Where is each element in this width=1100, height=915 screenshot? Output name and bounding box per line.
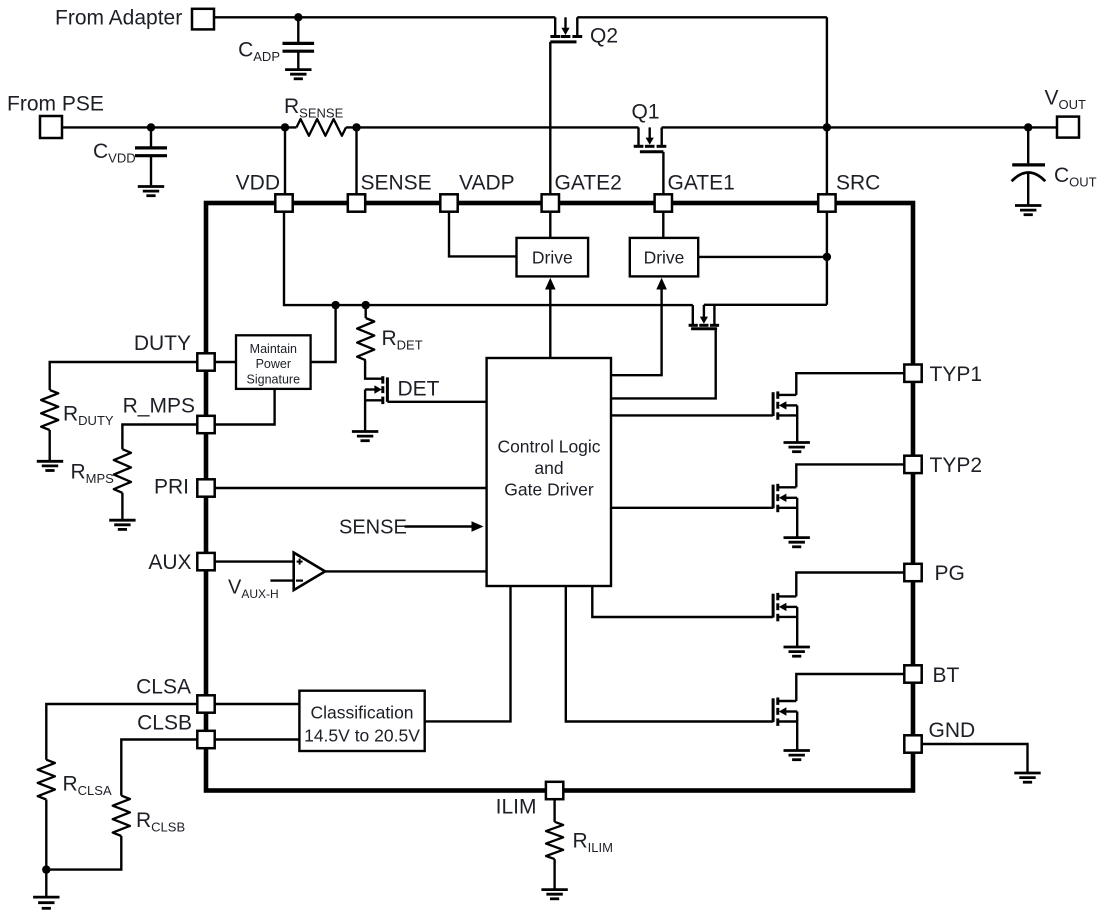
wire Q2 gate to GATE2 pin	[549, 42, 551, 195]
wire Drive2 output to SRC node	[698, 256, 827, 258]
svg-text:CLSB: CLSB	[137, 712, 192, 735]
wire GND pin to ground	[922, 744, 1028, 773]
ground GND pin	[1014, 772, 1040, 775]
svg-text:RSENSE: RSENSE	[284, 95, 344, 121]
pin GND	[904, 735, 921, 752]
wire GATE1 pin to Drive2	[662, 212, 664, 238]
block Control Logic and Gate Driver	[487, 358, 611, 586]
wire MPS box to VDD rail	[311, 305, 336, 362]
wire MPS box to R_MPS pin	[214, 389, 274, 425]
op-amp AUX comparator	[294, 553, 325, 591]
transistor DET	[381, 376, 384, 383]
transistor BT FET	[772, 698, 775, 722]
wire CLSB to classification box	[214, 738, 299, 740]
node RCLSA/RCLSB junction	[42, 865, 50, 873]
wire TYP2 source to ground	[796, 498, 798, 538]
wire RCLSB to junction	[46, 836, 121, 870]
wire Q1 source to VOUT	[662, 126, 1057, 128]
svg-text:RCLSB: RCLSB	[136, 809, 185, 835]
svg-text:R_MPS: R_MPS	[123, 395, 195, 418]
ground BT	[784, 749, 810, 752]
svg-text:BT: BT	[933, 664, 960, 687]
pin PG	[904, 564, 921, 581]
wire Q2 source to SRC drop	[577, 16, 827, 18]
block Classification	[299, 691, 424, 751]
svg-text:Drive: Drive	[532, 248, 573, 268]
pin VADP	[440, 194, 457, 211]
resistor RCLSA	[38, 760, 55, 800]
capacitor CADP	[297, 17, 299, 43]
svg-text:AUX: AUX	[148, 551, 191, 574]
pin CLSA	[197, 695, 214, 712]
wire CLSA to RCLSA	[46, 704, 197, 760]
wire SRC rail to pass FET	[704, 304, 827, 306]
wire TYP1 drain	[796, 373, 904, 395]
wire RDET top	[365, 305, 367, 318]
node Drive2/SRC junction	[823, 253, 831, 261]
wire PSE to RSENSE	[62, 126, 297, 128]
wire ILIM to RILIM	[553, 799, 555, 822]
pin SENSE	[348, 194, 365, 211]
wire DET gate to control logic	[387, 401, 486, 403]
pin ILIM	[546, 782, 563, 799]
svg-text:PG: PG	[935, 562, 965, 585]
wire TYP1 gate from control logic	[611, 414, 773, 416]
svg-text:GND: GND	[929, 719, 976, 742]
capacitor CVDD	[150, 127, 152, 147]
pin DUTY	[197, 353, 214, 370]
wire RDET to DET drain	[365, 360, 383, 379]
svg-text:CVDD: CVDD	[93, 140, 136, 166]
wire RILIM to ground	[553, 859, 555, 890]
wire CLSB to RCLSB	[121, 740, 197, 796]
resistor RMPS	[114, 449, 131, 493]
resistor RCLSB	[113, 796, 130, 836]
wire control logic to Drive2 (arrow)	[611, 289, 662, 376]
pin GATE1	[655, 194, 672, 211]
svg-text:SENSE: SENSE	[361, 172, 432, 195]
ground TYP2	[784, 536, 810, 539]
wire control logic to Drive1 (arrow)	[549, 289, 551, 359]
wire BT source to ground	[796, 712, 798, 751]
svg-text:DET: DET	[398, 378, 440, 401]
wire VAUX-H stub	[270, 579, 293, 581]
ground RILIM	[541, 888, 567, 891]
IC body (main controller outline)	[206, 203, 913, 791]
svg-text:CLSA: CLSA	[136, 676, 191, 699]
svg-text:GATE1: GATE1	[668, 172, 735, 195]
wire DUTY to RDUTY	[50, 362, 198, 390]
wire R_MPS to RMPS	[122, 425, 197, 450]
svg-text:VADP: VADP	[459, 172, 515, 195]
svg-text:ILIM: ILIM	[496, 796, 537, 819]
port VOUT	[1057, 117, 1079, 138]
pin BT	[904, 665, 921, 682]
svg-text:CADP: CADP	[238, 39, 280, 65]
node adapter/CADP junction	[294, 13, 302, 21]
node VDD tap	[281, 123, 289, 131]
svg-text:COUT: COUT	[1054, 164, 1097, 190]
svg-text:RDUTY: RDUTY	[63, 403, 114, 429]
svg-text:DUTY: DUTY	[134, 332, 191, 355]
wire TYP2 drain	[796, 464, 904, 487]
svg-text:From Adapter: From Adapter	[55, 7, 182, 30]
transistor Q1	[637, 127, 639, 145]
svg-text:Gate Driver: Gate Driver	[504, 480, 594, 500]
pin TYP2	[904, 456, 921, 473]
svg-text:Drive: Drive	[644, 248, 685, 268]
port From PSE	[40, 116, 62, 138]
wire PG drain	[796, 573, 904, 597]
transistor PG FET	[772, 594, 775, 618]
block Drive (GATE2 driver)	[517, 238, 589, 277]
svg-text:RMPS: RMPS	[71, 461, 115, 487]
wire pass FET gate to control logic	[611, 329, 716, 399]
wire VDD pin internal rail	[284, 212, 693, 306]
wire SENSE tap down to SENSE pin	[355, 127, 357, 195]
svg-text:Power: Power	[256, 357, 291, 371]
wire PG gate from control logic	[592, 586, 773, 617]
wire RMPS to ground	[121, 493, 123, 520]
node SRC/VOUT junction	[823, 123, 831, 131]
node SENSE tap	[352, 123, 360, 131]
svg-text:TYP1: TYP1	[930, 363, 983, 386]
pin R_MPS	[197, 416, 214, 433]
wire GATE2 pin to Drive1	[549, 212, 551, 238]
pin AUX	[197, 553, 214, 570]
resistor RDUTY	[41, 390, 58, 430]
block Maintain Power Signature	[236, 335, 311, 389]
svg-text:Signature: Signature	[247, 373, 301, 387]
wire SRC vertical (top)	[826, 17, 828, 195]
svg-text:and: and	[534, 458, 563, 478]
ground RMPS	[109, 519, 135, 522]
wire classification to control logic	[425, 586, 511, 721]
pin GATE2	[542, 194, 559, 211]
capacitor COUT (polarized)	[1027, 127, 1029, 163]
svg-text:RCLSA: RCLSA	[63, 773, 112, 799]
wire RDUTY to ground	[49, 430, 51, 461]
ground TYP1	[784, 441, 810, 444]
transistor TYP1 FET	[772, 392, 775, 416]
pin VDD	[275, 194, 292, 211]
wire VDD tap down to VDD pin	[284, 127, 286, 195]
node CVDD junction	[147, 123, 155, 131]
ground CVDD	[138, 185, 164, 188]
ground CADP	[285, 68, 311, 71]
wire comparator output to control logic	[325, 570, 487, 572]
wire Q1 gate to GATE1 pin	[662, 152, 664, 195]
transistor TYP2 FET	[772, 485, 775, 509]
ground PG	[784, 646, 810, 649]
pin TYP1	[904, 365, 921, 382]
pin SRC	[818, 194, 835, 211]
svg-text:From PSE: From PSE	[7, 93, 104, 116]
svg-text:Classification: Classification	[310, 703, 413, 723]
ground RDUTY	[37, 460, 63, 463]
wire TYP1 source to ground	[796, 405, 798, 442]
wire TYP2 gate from control logic	[611, 507, 773, 509]
wire BT gate from control logic	[566, 586, 773, 722]
wire RCLSA to ground	[45, 800, 47, 898]
svg-text:Q1: Q1	[632, 101, 660, 124]
pin PRI	[197, 479, 214, 496]
svg-text:14.5V to 20.5V: 14.5V to 20.5V	[304, 726, 420, 746]
transistor internal pass FET	[692, 305, 694, 324]
svg-text:GATE2: GATE2	[555, 172, 622, 195]
wire BT drain	[796, 674, 904, 701]
svg-text:Q2: Q2	[590, 25, 618, 48]
block Drive (GATE1 driver)	[630, 238, 698, 277]
wire PRI to control logic	[214, 487, 486, 489]
svg-text:SENSE: SENSE	[339, 517, 407, 539]
resistor RILIM	[546, 822, 563, 859]
wire AUX to comparator	[214, 560, 293, 562]
wire SENSE arrow	[405, 525, 473, 527]
svg-text:VDD: VDD	[236, 172, 280, 195]
wire VADP to Drive1	[449, 212, 517, 257]
ground DET	[352, 430, 378, 433]
wire PG source to ground	[796, 607, 798, 647]
svg-text:SRC: SRC	[836, 172, 880, 195]
wire SRC pin into IC	[826, 212, 828, 305]
node COUT junction	[1024, 123, 1032, 131]
wire CLSA to classification box	[214, 703, 299, 705]
svg-text:PRI: PRI	[154, 476, 189, 499]
pin CLSB	[197, 731, 214, 748]
wire RSENSE to Q1 drain	[346, 126, 639, 128]
wire DUTY pin to MPS box	[214, 361, 236, 363]
ground COUT	[1015, 204, 1041, 207]
wire adapter to Q2 drain	[214, 16, 555, 18]
node MPS tap	[331, 301, 339, 309]
svg-text:TYP2: TYP2	[930, 454, 983, 477]
resistor RSENSE	[297, 119, 347, 136]
svg-text:VOUT: VOUT	[1045, 87, 1087, 113]
svg-text:RILIM: RILIM	[573, 830, 613, 856]
svg-text:Maintain: Maintain	[250, 342, 297, 356]
transistor Q2	[554, 17, 556, 35]
port From Adapter	[192, 9, 214, 30]
resistor RDET	[357, 318, 374, 360]
svg-text:Control Logic: Control Logic	[497, 437, 600, 457]
ground RCLSA	[33, 896, 59, 899]
node RDET tap	[362, 301, 370, 309]
